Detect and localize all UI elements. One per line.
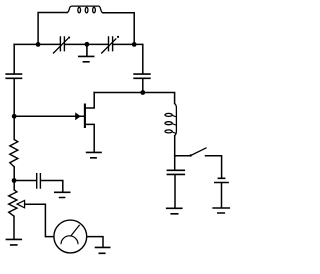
wire C3 to its ground	[41, 181, 63, 192]
wire top-left vertical and top wire left of L1	[38, 13, 67, 45]
wire drain bus	[94, 93, 174, 104]
node gate	[12, 114, 17, 119]
meter M1 scale arc	[61, 236, 78, 245]
wire bus left segment	[14, 43, 60, 45]
wire C4 top lead	[174, 156, 176, 170]
capacitor C4 plates	[167, 170, 186, 174]
ground meter	[95, 247, 111, 253]
wire left branch bus to C1	[13, 44, 15, 73]
variable capacitor VC2 arrow tip	[117, 36, 119, 38]
node bus left	[36, 42, 41, 47]
meter M1 needle	[71, 225, 80, 236]
switch S1 lever	[191, 148, 207, 156]
potentiometer R2 wiper arrow	[17, 200, 25, 207]
wire gate lead	[14, 115, 84, 117]
variable capacitor VC1 arrow	[53, 38, 68, 53]
wire switch right contact to battery	[206, 156, 222, 178]
variable capacitor VC1 plates	[60, 36, 64, 51]
variable capacitor VC2 plates	[109, 36, 113, 51]
wire R1 to pot through node	[13, 167, 15, 190]
ground battery	[212, 208, 230, 213]
wire C1 to R1 through gate node	[13, 79, 15, 139]
potentiometer R2 body	[9, 190, 17, 216]
wire pot wiper to meter	[25, 204, 54, 236]
transistor Q1 gate arrow	[75, 112, 81, 120]
inductor L1	[67, 6, 103, 13]
wire C2 to drain bus	[142, 79, 144, 92]
ground transistor source	[86, 152, 102, 157]
ground bottom left	[6, 239, 23, 245]
resistor R1	[10, 140, 18, 167]
node R1 pot	[12, 178, 17, 183]
ground C3	[54, 192, 71, 197]
capacitor C1 plates	[5, 74, 22, 78]
capacitor C2 plates	[133, 74, 150, 78]
ground bus middle	[78, 46, 95, 62]
wire bus right segment down to C2	[113, 44, 143, 73]
transistor Q1 source lead	[86, 124, 95, 151]
wire C4 bottom lead to ground	[174, 175, 176, 207]
wire pot bottom to ground	[13, 216, 15, 238]
ground C4	[166, 208, 183, 214]
transistor Q1 drain lead	[86, 93, 95, 109]
capacitor C3 plates	[37, 173, 41, 189]
meter M1 circle	[54, 220, 87, 253]
inductor L2	[165, 104, 176, 136]
variable capacitor VC2 arrow	[101, 38, 116, 53]
wire L2 bottom lead to tee	[174, 136, 176, 156]
battery B1 plates	[214, 178, 229, 182]
node bus ground	[85, 42, 90, 47]
node bus right	[132, 42, 137, 47]
node switch pivot	[190, 154, 192, 156]
transistor Q1 channel bar	[84, 104, 86, 129]
variable capacitor VC1 arrow tip	[68, 37, 70, 39]
wire top wire right of L1 down to bus	[103, 13, 134, 45]
wire node to C3	[14, 180, 36, 182]
wire meter to its ground	[87, 237, 103, 247]
wire tee to switch left contact	[175, 155, 190, 157]
wire bus middle segment	[65, 43, 108, 45]
node drain bus	[140, 90, 145, 95]
wire battery to ground	[221, 183, 223, 207]
